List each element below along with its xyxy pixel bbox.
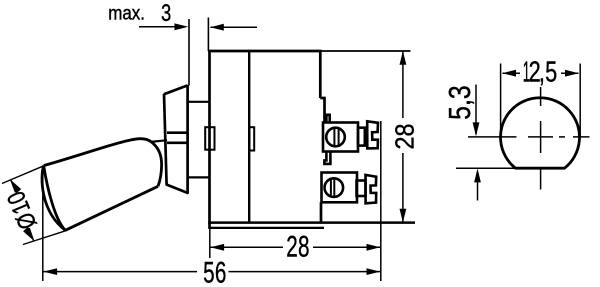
lever small-end cap arc [151,142,161,186]
dimension max.3 right arrowhead [210,24,224,31]
lever shaft connector into nut slot [151,140,167,142]
threaded neck bottom line [189,176,209,178]
lever bottom edge [65,186,158,230]
svg-text:max.: max. [108,2,145,23]
nut slot bottom line [167,141,188,144]
terminal 2 clamp plate [366,175,377,203]
hex nut top chamfer edge [164,85,188,94]
terminal 1 clamp plate [367,121,378,148]
body bottom-left corner tick joining base line [208,223,211,229]
terminal 2 screw slot left line [330,179,332,197]
terminal 1 screw slot left line [333,128,335,146]
dimension 12,5 right extension line [579,64,581,137]
svg-text:28: 28 [392,123,420,149]
dimension Ø10 upper arrowhead [11,178,22,194]
tab above terminal 1 [326,115,329,123]
lever top edge cresting toward pivot [44,139,152,166]
dimension 56 left arrowhead [43,268,57,275]
horizontal centerline left dash (also 5,3 upper extension) [468,136,517,138]
body internal parting line [248,51,250,223]
dimension 12,5 left arrowhead [502,70,516,77]
terminal 2 connector stub [357,181,366,197]
dimension 28 bottom right arrowhead [367,244,381,251]
threaded neck top line [189,101,209,103]
extension line from body front face (max.3 right) [207,18,209,52]
dimension 5,3 up arrowhead [474,169,481,183]
switch body top edge [208,50,321,53]
rivet bracket on internal parting line [249,127,254,150]
terminal 1 screw slot right line [338,128,340,145]
body top edge extension line to vertical 28 dim [321,50,411,52]
dimension 28 vertical bottom arrowhead [400,209,407,223]
nut slot top line [167,131,188,134]
dimension 5,3 lower leader line [477,172,479,201]
dimension max.3 left arrow line [139,26,177,28]
dimension 28 bottom line left segment [210,246,283,248]
dimension 28 vertical line lower segment [402,153,404,223]
dimension 12,5 left extension line [500,64,502,137]
lever knob outer dome arc [42,166,65,231]
dimension 5,3 down arrowhead [473,122,480,136]
switch body right edge upper [319,51,322,98]
rivet rectangle on body front face [205,127,214,150]
dimension max.3 right arrow line [211,26,258,28]
dimension Ø10 upper extension line [2,166,44,184]
horizontal centerline center dash [528,136,553,138]
terminal 2 block [322,173,358,203]
dimension Ø10 upper arrow shaft [11,180,16,193]
svg-text:28: 28 [286,231,309,264]
dimension 12,5 line left segment [503,72,521,74]
hex nut front edge [164,94,167,185]
svg-text:2,5: 2,5 [529,57,558,89]
terminal 2 screw head [325,178,344,197]
dimension 56 line left segment [43,271,197,273]
dimension 56 right arrowhead [367,268,381,275]
front view: mounting hole circle with flat bottom [501,98,580,168]
lever knob rim arc [44,166,66,231]
dimension Ø10 lower arrow shaft [29,228,33,241]
dimension Ø10 lower arrowhead [22,227,33,243]
dimension 28 bottom line right segment [313,246,380,248]
dimension 56 line right segment [229,271,381,273]
hex nut rear face edge [186,85,189,194]
svg-text:3: 3 [161,0,171,27]
horizontal centerline right dash [573,136,590,138]
switch body left edge (front face) [208,50,211,224]
dimension 28 bottom left extension line [209,223,211,259]
terminal 1 screw head [326,128,345,147]
lower base line under body [209,227,324,229]
dimension 12,5 line right segment [561,72,579,74]
switch body right edge below terminal 2 [320,202,323,222]
dimension 28 vertical top arrowhead [400,51,407,65]
vertical centerline center dash [540,121,542,153]
dimension 12,5 right arrowhead [565,70,579,77]
dimension 28 bottom left arrowhead [210,244,224,251]
svg-text:5,3: 5,3 [443,85,477,119]
tab below terminal 1 [324,152,330,164]
dimension Ø10 lower extension line [23,230,67,244]
horizontal centerline short dash [559,136,565,138]
vertical centerline bottom dash [540,168,542,190]
terminal 1 connector stub [358,128,365,146]
terminal 1 block [323,123,358,152]
flat bottom extension line (5,3 lower extension) [456,167,516,169]
switch body right edge step to terminal 1 [320,98,324,123]
switch body bottom edge (extends right as extension line for vertical 28 dim) [208,221,415,224]
dimension max.3 left arrowhead [175,23,189,30]
dimension 5,3 upper leader line [475,85,477,135]
dimension 28 vertical line upper segment [402,51,404,118]
hex nut bottom chamfer edge [166,184,189,193]
terminal 2 screw slot right line [333,178,335,197]
svg-text:56: 56 [203,257,226,287]
dimension 56 left extension line [42,171,44,281]
extension line from nut rear face (max.3 left) [188,19,190,86]
vertical centerline top dash [540,87,542,106]
shared right extension line for 28 and 56 dims [380,121,382,281]
